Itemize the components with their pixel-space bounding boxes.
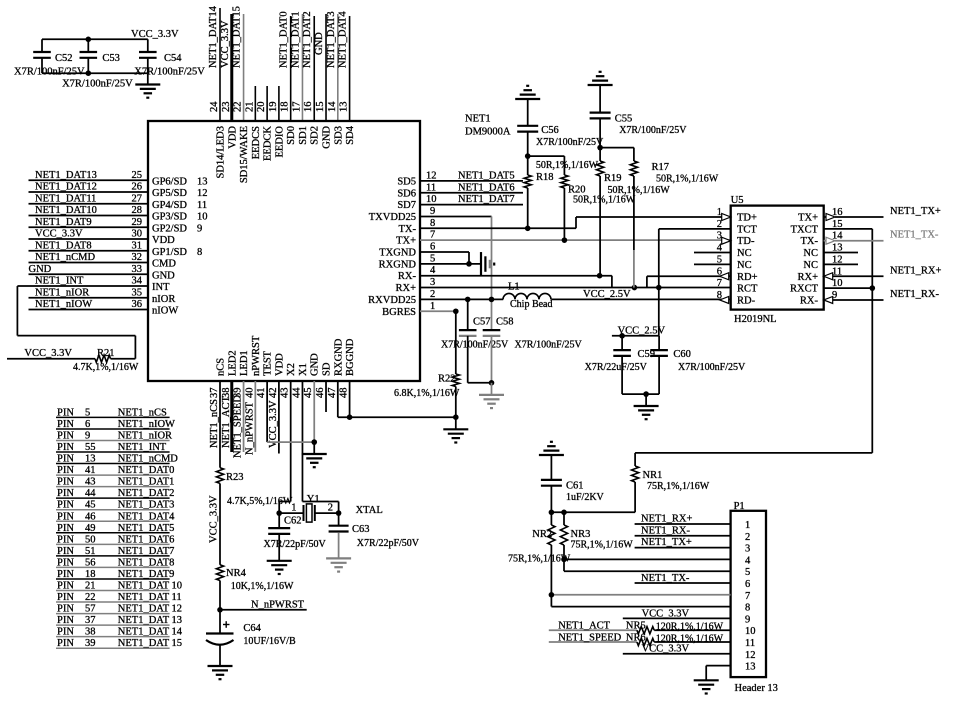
svg-text:NC: NC <box>737 248 752 259</box>
svg-text:NET1_DAT12: NET1_DAT12 <box>35 182 97 193</box>
IC top pin names <box>216 125 357 183</box>
wire RX- net NET1_RX- <box>824 289 940 304</box>
wire RD+ jog <box>647 276 731 287</box>
svg-text:12: 12 <box>197 188 208 199</box>
IC bottom pin names <box>216 335 357 376</box>
svg-text:NET1_RX+: NET1_RX+ <box>641 514 692 525</box>
svg-text:C63: C63 <box>352 524 370 535</box>
arrow TD+ input <box>722 214 731 221</box>
wire IC pin 13 top column net NET1_DAT4 <box>338 11 350 121</box>
svg-text:TEST: TEST <box>263 350 274 376</box>
svg-text:NR5: NR5 <box>626 621 646 632</box>
wire IC pin 28 net NET1_DAT10 <box>29 205 149 216</box>
svg-text:10UF/16V/B: 10UF/16V/B <box>243 636 296 647</box>
svg-text:GP4/SD: GP4/SD <box>152 200 187 211</box>
svg-text:NET1_DAT7: NET1_DAT7 <box>458 194 515 205</box>
svg-text:13: 13 <box>745 662 756 673</box>
VCC_3.3V net label (R21) <box>24 348 72 359</box>
svg-text:NET1: NET1 <box>465 113 491 124</box>
ground (C63) <box>326 558 351 571</box>
svg-text:R19: R19 <box>604 173 622 184</box>
svg-text:X7R/100nF/25V: X7R/100nF/25V <box>619 125 687 136</box>
wire IC pin 39 net NET1_SPEED <box>243 381 245 452</box>
wire VCC to R21 <box>7 358 95 360</box>
wire IC pin 22 top column net NET1_DAT15 <box>232 6 244 121</box>
connector P1 body <box>731 501 778 694</box>
svg-text:37: 37 <box>209 388 220 399</box>
transformer left pin numbers <box>717 207 723 301</box>
wire IC pin 3 RX+ / RCT row <box>420 277 731 288</box>
transformer U5 body <box>731 195 824 325</box>
resistor R17 <box>630 148 718 288</box>
capacitor C59 <box>585 336 655 394</box>
node C61/NR2 junction <box>549 510 555 516</box>
net label NET1_ACT (rotated) <box>221 396 232 448</box>
svg-text:X7R/100nF/25V: X7R/100nF/25V <box>515 340 583 351</box>
wire P1 pin 8 <box>551 606 730 608</box>
svg-text:10: 10 <box>197 212 208 223</box>
wire P1 pin 13 to ground <box>706 666 730 681</box>
node BGGND junction <box>347 414 353 420</box>
svg-text:nIOW: nIOW <box>152 306 178 317</box>
svg-text:VDD: VDD <box>152 235 175 246</box>
svg-text:TXCT: TXCT <box>791 224 819 235</box>
svg-text:C52: C52 <box>55 53 73 64</box>
node R17 junction <box>632 285 638 291</box>
svg-text:NET1_RX-: NET1_RX- <box>641 525 690 536</box>
svg-text:32: 32 <box>132 252 143 263</box>
ground (R22) <box>443 417 468 442</box>
node crystal pin1 junction <box>276 510 282 516</box>
node R20 junction <box>562 237 568 243</box>
svg-text:C53: C53 <box>102 53 120 64</box>
wire IC pin 10 net NET1_DAT7 <box>420 194 523 205</box>
wire C57-C58 bottom rail <box>468 382 492 384</box>
svg-text:X7R/100nF/25V: X7R/100nF/25V <box>678 362 746 373</box>
wire C59-C60 bottom rail <box>622 393 659 395</box>
wire IC pin 4 RX- <box>420 265 612 287</box>
resistor R20 <box>561 156 636 240</box>
wire CT bias row <box>635 452 872 454</box>
svg-text:GP5/SD: GP5/SD <box>152 188 187 199</box>
svg-text:120R,1%,1/16W: 120R,1%,1/16W <box>656 622 724 633</box>
svg-text:SD: SD <box>322 362 333 376</box>
transformer NC stubs left <box>694 253 731 265</box>
svg-text:TXGND: TXGND <box>379 248 416 259</box>
wire RX+ net NET1_RX+ <box>824 265 942 280</box>
svg-text:7: 7 <box>745 591 750 602</box>
svg-text:TX+: TX+ <box>396 236 416 247</box>
arrow RD+ output <box>720 273 729 280</box>
svg-text:NET1_SPEED: NET1_SPEED <box>233 395 244 458</box>
svg-text:BGRES: BGRES <box>382 307 416 318</box>
svg-text:12: 12 <box>745 650 756 661</box>
svg-text:NR1: NR1 <box>643 470 663 481</box>
node C58 junction <box>489 297 495 303</box>
svg-text:75R,1%,1/16W: 75R,1%,1/16W <box>571 540 634 551</box>
svg-text:1: 1 <box>430 301 435 312</box>
svg-text:15: 15 <box>315 102 326 113</box>
svg-text:TCT: TCT <box>737 224 757 235</box>
svg-text:RXCT: RXCT <box>790 284 819 295</box>
wire IC pin 42 net VCC_3.3V <box>278 381 280 454</box>
wire P1 pin 7 <box>551 594 730 596</box>
resistor R22 <box>394 311 460 417</box>
svg-text:X7R/100nF/25V: X7R/100nF/25V <box>536 137 604 148</box>
svg-text:NET1_nIOR: NET1_nIOR <box>35 287 89 298</box>
svg-text:14: 14 <box>327 101 338 112</box>
wire TXCT <box>824 229 873 453</box>
svg-text:NET1_INT: NET1_INT <box>35 276 84 287</box>
resistor R23 <box>216 468 292 507</box>
wire P1 pin 3 net NET1_TX+ <box>635 537 731 548</box>
svg-text:11: 11 <box>426 182 436 193</box>
svg-text:nIOR: nIOR <box>152 294 175 305</box>
svg-text:X2: X2 <box>286 363 297 376</box>
svg-text:NET1_DAT13: NET1_DAT13 <box>35 170 97 181</box>
svg-text:Y1: Y1 <box>307 494 320 505</box>
svg-text:GND: GND <box>314 32 325 55</box>
wire TEST41-GND45 tie <box>267 441 314 443</box>
svg-text:R22: R22 <box>438 374 456 385</box>
node C56 junction <box>525 153 531 159</box>
svg-text:NET1_RX+: NET1_RX+ <box>890 265 941 276</box>
svg-text:35: 35 <box>132 287 143 298</box>
svg-text:NR2: NR2 <box>532 529 552 540</box>
wire RXCT <box>824 287 873 289</box>
svg-text:NET1_DAT0: NET1_DAT0 <box>279 11 290 68</box>
svg-text:N_nPWRST: N_nPWRST <box>244 401 255 455</box>
svg-text:SD3: SD3 <box>333 126 344 145</box>
svg-text:RX-: RX- <box>398 271 417 282</box>
resistor R19 <box>597 148 671 276</box>
node R22 ground junction <box>453 414 459 420</box>
wire IC pin 46 stub <box>325 381 327 412</box>
wire P1 pin 11 net NET1_SPEED <box>549 632 637 643</box>
wire IC pin 27 net NET1_DAT11 <box>29 193 149 204</box>
svg-text:TX-: TX- <box>399 224 417 235</box>
svg-text:30: 30 <box>132 229 143 240</box>
svg-text:VCC_3.3V: VCC_3.3V <box>131 29 179 40</box>
wire P1 pin 10 net NET1_ACT <box>549 621 637 632</box>
svg-text:C58: C58 <box>496 317 514 328</box>
svg-text:13: 13 <box>197 176 208 187</box>
node GND45 junction <box>311 439 317 445</box>
pin numbers 37-48 (IC bottom edge) <box>209 387 350 398</box>
svg-text:TD-: TD- <box>737 236 755 247</box>
svg-text:BGGND: BGGND <box>345 338 356 376</box>
wire crystal pin 1 <box>279 503 303 514</box>
node TCT column junction <box>656 285 662 291</box>
wire C55 to R17 top <box>600 147 634 149</box>
svg-text:C62: C62 <box>284 516 302 527</box>
node C53 top junction <box>86 37 92 43</box>
svg-text:VCC_3.3V: VCC_3.3V <box>642 644 690 655</box>
svg-text:X7R/22pF/50V: X7R/22pF/50V <box>264 539 327 550</box>
svg-text:18: 18 <box>280 102 291 113</box>
svg-text:22: 22 <box>233 102 244 113</box>
wire P1 pin 2 net NET1_RX- <box>635 525 731 536</box>
wire P1 pin 1 net NET1_RX+ <box>635 514 731 525</box>
pin numbers 24-13 (IC top edge) <box>209 101 350 112</box>
wire RXGND/BGGND rail <box>338 416 456 418</box>
svg-text:23: 23 <box>221 102 232 113</box>
crystal Y1 <box>304 494 383 522</box>
wire C56 to R20 top <box>528 155 565 157</box>
wire IC pin 15 top column net GND <box>314 14 326 121</box>
wire VCC_3.3V top rail <box>42 38 148 40</box>
svg-text:TX-: TX- <box>801 236 819 247</box>
wire IC pin 36 net NET1_nIOW <box>29 299 149 310</box>
svg-text:19: 19 <box>268 102 279 113</box>
wire IC pin 18 top column net NET1_DAT0 <box>279 11 291 121</box>
node NR3/pin4 junction <box>561 557 567 563</box>
wire IC pin 34 net NET1_INT <box>17 276 148 287</box>
svg-text:8: 8 <box>745 603 750 614</box>
svg-text:26: 26 <box>132 182 143 193</box>
wire IC pin 30 net VCC_3.3V <box>29 229 149 240</box>
capacitor C64 (polarized) <box>206 621 296 647</box>
wire decoupling bottom rail <box>42 72 148 74</box>
svg-text:3: 3 <box>430 277 435 288</box>
svg-text:50R,1%,1/16W: 50R,1%,1/16W <box>536 160 599 171</box>
svg-text:LED2: LED2 <box>227 350 238 376</box>
svg-text:29: 29 <box>132 217 143 228</box>
svg-text:2: 2 <box>430 289 435 300</box>
wire IC pin 25 net NET1_DAT13 <box>29 170 149 181</box>
ground (sideways, TXGND) <box>481 252 494 276</box>
capacitor C54 <box>134 39 205 77</box>
resistor NR5 <box>626 621 731 634</box>
svg-text:8: 8 <box>197 247 202 258</box>
svg-text:NET1_TX-: NET1_TX- <box>641 573 690 584</box>
node C53 bottom junction <box>86 70 92 76</box>
wire P1 pin 4 <box>564 558 731 560</box>
node C58 ground junction <box>489 380 495 386</box>
wire IC pin 1 BGRES <box>420 301 456 312</box>
svg-text:40: 40 <box>244 388 255 399</box>
wire IC pin 44 to crystal <box>302 381 338 513</box>
wire IC pin 40 net N_nPWRST <box>254 381 256 452</box>
svg-text:24: 24 <box>209 101 220 112</box>
svg-text:X7R/22pF/50V: X7R/22pF/50V <box>357 538 420 549</box>
ground (C62) <box>267 561 292 574</box>
ground (pin 45) <box>302 442 327 467</box>
node R18 junction <box>525 226 531 232</box>
svg-text:20: 20 <box>256 102 267 113</box>
resistor NR2 <box>508 512 571 606</box>
net label NET1_SPEED (rotated) <box>233 395 244 458</box>
wire IC pin 17 top column net NET1_DAT1 <box>290 11 302 121</box>
svg-text:NR4: NR4 <box>226 568 247 579</box>
svg-text:P1: P1 <box>734 501 745 512</box>
svg-text:NET1_DAT3: NET1_DAT3 <box>326 11 337 68</box>
svg-text:TD+: TD+ <box>737 213 757 224</box>
svg-text:X7R/100nF/25V: X7R/100nF/25V <box>62 79 133 90</box>
svg-text:C56: C56 <box>541 125 559 136</box>
svg-text:NET1_ACT: NET1_ACT <box>221 396 232 448</box>
wire P1 pin 5 <box>564 570 731 572</box>
svg-text:9: 9 <box>197 223 202 234</box>
svg-text:VCC_3.3V: VCC_3.3V <box>642 609 690 620</box>
sheet symbol label NET1 DM9000A <box>465 113 511 137</box>
svg-text:VCC_3.3V: VCC_3.3V <box>220 20 231 68</box>
svg-text:4: 4 <box>430 265 436 276</box>
svg-text:10: 10 <box>426 194 437 205</box>
wire IC pin 33 net GND <box>29 264 149 275</box>
svg-text:NR3: NR3 <box>571 529 591 540</box>
svg-text:NET1_DAT10: NET1_DAT10 <box>35 205 97 216</box>
capacitor C57 <box>441 299 509 382</box>
svg-text:NET1_ACT: NET1_ACT <box>558 621 610 632</box>
resistor NR3 <box>560 512 633 571</box>
svg-text:EEDCS: EEDCS <box>251 126 262 159</box>
wire P1 pin 6 net NET1_TX- <box>635 573 731 584</box>
svg-text:C60: C60 <box>673 349 691 360</box>
svg-text:VCC_2.5V: VCC_2.5V <box>618 326 666 337</box>
arrow RD- output <box>720 296 729 303</box>
svg-text:NET1_DAT14: NET1_DAT14 <box>208 5 219 68</box>
svg-text:RD+: RD+ <box>737 272 758 283</box>
svg-text:SD14/LED3: SD14/LED3 <box>216 126 227 179</box>
svg-text:INT: INT <box>152 282 170 293</box>
svg-text:6.8K,1%,1/16W: 6.8K,1%,1/16W <box>394 388 460 399</box>
svg-text:SD7: SD7 <box>397 200 416 211</box>
svg-text:NET1_TX-: NET1_TX- <box>890 230 939 241</box>
wire IC pin 8 TX- <box>420 218 576 229</box>
svg-text:NET1_SPEED: NET1_SPEED <box>558 632 621 643</box>
svg-text:X7R/22uF/25V: X7R/22uF/25V <box>585 362 648 373</box>
svg-text:42: 42 <box>268 388 279 399</box>
transformer right pin numbers <box>832 207 843 301</box>
wire crystal pin 2 <box>315 503 339 514</box>
svg-text:8: 8 <box>430 218 435 229</box>
net label VCC_3.3V pin42 (rotated) <box>268 400 279 448</box>
svg-text:LED1: LED1 <box>239 350 250 376</box>
svg-text:SD2: SD2 <box>310 126 321 145</box>
svg-text:TXVDD25: TXVDD25 <box>369 212 416 223</box>
svg-text:VDD: VDD <box>227 126 238 149</box>
capacitor C53 <box>62 39 133 89</box>
wire net N_nPWRST <box>220 600 307 611</box>
svg-text:GP3/SD: GP3/SD <box>152 212 187 223</box>
ground (above C56, inverted) <box>515 86 540 126</box>
svg-text:5: 5 <box>430 253 435 264</box>
svg-text:VCC_3.3V: VCC_3.3V <box>268 400 279 448</box>
VCC_2.5V net label (L1) <box>583 289 631 300</box>
wire IC pin 45 GND <box>313 381 315 442</box>
svg-text:5: 5 <box>745 567 750 578</box>
svg-text:NET1_DAT6: NET1_DAT6 <box>458 182 515 193</box>
svg-text:10K,1%,1/16W: 10K,1%,1/16W <box>231 581 294 592</box>
wire IC pin 38 net NET1_ACT <box>230 381 233 452</box>
node NR2/pin7 junction <box>549 592 555 598</box>
svg-text:27: 27 <box>132 193 143 204</box>
wire IC pin 11 net NET1_DAT6 <box>420 182 523 193</box>
svg-text:12: 12 <box>426 170 437 181</box>
svg-text:SD1: SD1 <box>298 126 309 145</box>
wire IC pin 5 RXGND <box>420 253 480 264</box>
wire TX- net NET1_TX- <box>824 230 939 245</box>
svg-text:3: 3 <box>745 544 750 555</box>
wire IC pin 26 net NET1_DAT12 <box>29 182 149 193</box>
wire IC pin 23 top column net VCC_3.3V <box>220 14 232 121</box>
VCC_3.3V power net label (top-left) <box>131 29 179 40</box>
node TXGND/RXGND junction <box>466 261 472 267</box>
svg-text:NC: NC <box>803 248 818 259</box>
node RXCT junction <box>870 285 876 291</box>
svg-text:R23: R23 <box>226 472 244 483</box>
wire IC pin 6 TXGND <box>420 242 469 264</box>
svg-text:NET1_TX+: NET1_TX+ <box>641 537 692 548</box>
IC U? DM9000A body <box>148 121 420 381</box>
wire P1 pin 9 net VCC_3.3V <box>623 609 731 620</box>
svg-text:1uF/2KV: 1uF/2KV <box>566 492 605 503</box>
svg-text:4.7K,1%,1/16W: 4.7K,1%,1/16W <box>73 362 139 373</box>
svg-text:R18: R18 <box>536 172 554 183</box>
wire IC pin 24 top column net NET1_DAT14 <box>208 5 220 121</box>
svg-text:47: 47 <box>327 388 338 399</box>
svg-text:31: 31 <box>132 240 143 251</box>
connector P1 pin numbers <box>745 520 756 673</box>
svg-text:4.7K,5%,1/16W: 4.7K,5%,1/16W <box>227 496 293 507</box>
VCC_3.3V net label (rotated, R23 column) <box>209 495 220 543</box>
svg-text:33: 33 <box>132 264 143 275</box>
resistor NR1 <box>632 453 710 512</box>
wire TXVDD25 column <box>491 216 493 330</box>
svg-text:1: 1 <box>745 520 750 531</box>
svg-text:RX+: RX+ <box>797 272 818 283</box>
arrow TD- input <box>722 237 731 244</box>
svg-text:4: 4 <box>745 555 751 566</box>
svg-text:2: 2 <box>328 503 333 514</box>
wire IC pin 35 net NET1_nIOR <box>29 287 149 298</box>
transformer pin names <box>737 213 819 307</box>
svg-text:SD0: SD0 <box>286 126 297 145</box>
wire TCT <box>659 228 731 230</box>
wire TX+ net NET1_TX+ <box>824 206 941 221</box>
svg-text:RXGND: RXGND <box>333 338 344 376</box>
svg-text:17: 17 <box>291 102 302 113</box>
wire R23 to NR4 <box>219 483 221 564</box>
svg-text:NET1_DAT9: NET1_DAT9 <box>35 217 92 228</box>
node NR3 junction <box>561 510 567 516</box>
svg-text:EEDCK: EEDCK <box>263 126 274 161</box>
net label NET1_nCS (rotated) <box>209 399 220 448</box>
svg-text:NET1_DAT4: NET1_DAT4 <box>338 11 349 68</box>
svg-text:NET1_nIOW: NET1_nIOW <box>35 299 92 310</box>
ground (above C55, inverted) <box>588 72 613 113</box>
svg-text:RXGND: RXGND <box>379 259 417 270</box>
transformer NC stubs right <box>824 253 858 265</box>
wire IC pin 2 RXVDD25 / RD- row <box>420 289 731 300</box>
svg-text:TX+: TX+ <box>798 213 818 224</box>
wire P1 pin 12 net VCC_3.3V <box>623 644 731 655</box>
net label N_nPWRST (rotated) <box>244 401 255 455</box>
svg-text:VCC_3.3V: VCC_3.3V <box>35 229 83 240</box>
svg-text:X7R/100nF/25V: X7R/100nF/25V <box>134 67 205 78</box>
svg-text:NET1_nCS: NET1_nCS <box>209 399 220 448</box>
svg-text:44: 44 <box>291 387 302 398</box>
svg-text:SD6: SD6 <box>397 188 416 199</box>
node C59/C60 ground junction <box>643 391 649 397</box>
svg-text:NET1_RX-: NET1_RX- <box>890 289 939 300</box>
IC left pin names <box>152 176 208 316</box>
wire IC pin 29 net NET1_DAT9 <box>29 217 149 228</box>
svg-text:VCC_3.3V: VCC_3.3V <box>24 348 72 359</box>
svg-text:VDD: VDD <box>274 353 285 376</box>
svg-text:6: 6 <box>430 242 435 253</box>
